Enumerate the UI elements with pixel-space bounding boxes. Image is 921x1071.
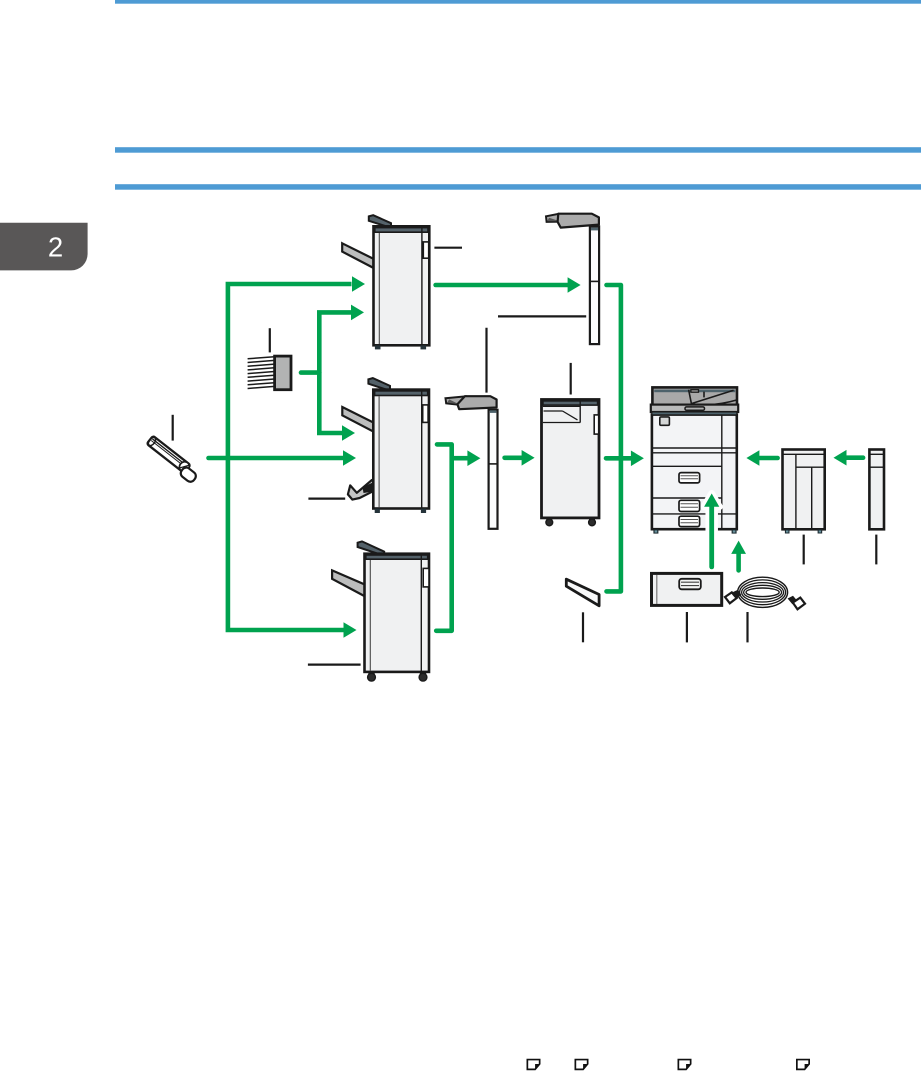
svg-text:2: 2: [48, 232, 63, 263]
